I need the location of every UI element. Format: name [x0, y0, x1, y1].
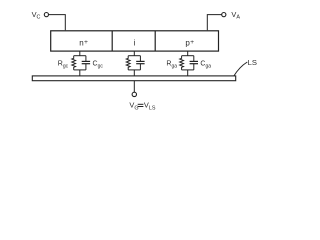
- node bottom i: [128, 69, 140, 71]
- wire stub box to RC gc: [79, 51, 81, 56]
- wire stub box to RC i: [133, 51, 135, 56]
- svg-text:VA: VA: [231, 10, 240, 21]
- wire LS bar to VG terminal: [133, 81, 135, 93]
- terminal VA: [222, 13, 226, 17]
- svg-text:LS: LS: [248, 58, 257, 67]
- capacitor Ci: [136, 56, 144, 70]
- svg-text:n+: n+: [79, 38, 88, 47]
- wire VA to box: [207, 15, 221, 31]
- divider i/p+: [154, 31, 156, 51]
- node bottom ga: [182, 69, 194, 71]
- resistor Rgc: [72, 56, 76, 70]
- node top i: [128, 55, 140, 57]
- svg-text:Rgc: Rgc: [58, 61, 69, 70]
- diode body box: [51, 31, 219, 51]
- node bottom gc: [74, 69, 86, 71]
- svg-text:i: i: [134, 38, 136, 47]
- wire VC to box: [49, 15, 66, 31]
- divider n+/i: [111, 31, 113, 51]
- wire stub box to RC ga: [187, 51, 189, 56]
- node top gc: [74, 55, 86, 57]
- resistor Rga: [180, 56, 184, 70]
- wire stub RC i to LS bar: [133, 70, 135, 76]
- svg-text:Cgc: Cgc: [93, 61, 104, 70]
- svg-text:VG: VG: [129, 101, 138, 112]
- terminal VC: [44, 13, 48, 17]
- wire stub RC gc to LS bar: [79, 70, 81, 76]
- capacitor Cga: [190, 56, 198, 70]
- capacitor Cgc: [82, 56, 90, 70]
- terminal VG: [132, 92, 136, 96]
- wire stub RC ga to LS bar: [187, 70, 189, 76]
- svg-text:p+: p+: [185, 38, 194, 47]
- substrate bar LS: [32, 76, 235, 81]
- svg-text:VC: VC: [32, 10, 41, 21]
- svg-text:Rga: Rga: [166, 61, 177, 70]
- leader line to LS label: [234, 62, 247, 76]
- svg-text:Cga: Cga: [200, 61, 211, 70]
- resistor Ri: [126, 56, 130, 70]
- svg-text:VLS: VLS: [144, 101, 156, 112]
- node top ga: [182, 55, 194, 57]
